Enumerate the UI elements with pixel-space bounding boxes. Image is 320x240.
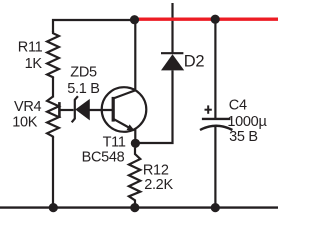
svg-text:2.2K: 2.2K [144,177,173,193]
node bottom-left [49,203,58,212]
node bottom-right [211,203,220,212]
wire emitter down [134,129,136,148]
svg-text:10K: 10K [12,115,38,131]
capacitor C4 [200,119,232,130]
svg-text:T11: T11 [103,135,126,151]
svg-text:1000µ: 1000µ [227,114,267,130]
node emitter junction [131,139,140,148]
transistor T11 [102,87,147,132]
wire collector [134,20,136,90]
wire C4 top [214,19,216,118]
resistor R12 [129,148,140,208]
svg-text:BC548: BC548 [82,150,125,166]
wire between R11 and VR4 [52,77,54,98]
svg-text:C4: C4 [229,97,247,113]
svg-text:ZD5: ZD5 [70,65,97,81]
wire +V red rail [131,18,278,21]
svg-text:D2: D2 [184,53,205,71]
svg-text:1K: 1K [25,56,43,72]
wire below VR4 [52,137,54,208]
svg-text:VR4: VR4 [14,99,42,115]
svg-text:35 B: 35 B [229,129,258,145]
label + (C4 polarity) [205,105,212,113]
potentiometer VR4 wiper bar [58,102,61,118]
wire D2 cathode up [171,3,173,54]
node bottom-middle [130,203,139,212]
resistor R11 [47,31,59,78]
wire wiper to zener [59,109,73,111]
node top junction [130,15,139,24]
svg-text:R11: R11 [18,40,43,56]
wire emitter node to D2 anode [136,70,173,143]
wire ground rail [0,206,278,208]
wire C4 bottom [214,126,216,208]
zener diode ZD5 [72,96,113,122]
wire top-left L [53,20,135,32]
svg-text:R12: R12 [143,162,169,178]
svg-text:5.1 B: 5.1 B [67,81,99,97]
node top-right junction [211,15,220,24]
potentiometer VR4 [47,97,59,139]
diode D2 [161,53,184,70]
